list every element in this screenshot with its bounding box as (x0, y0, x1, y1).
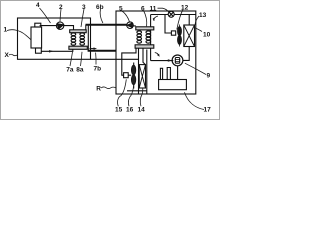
leader 17 (185, 92, 205, 109)
duct left side wall (87, 25, 89, 51)
leader X (9, 54, 18, 55)
leader 9 (185, 63, 206, 74)
leader 14 (140, 88, 143, 106)
arrow on compressor wire (168, 59, 172, 61)
channel to HX14 right (143, 48, 145, 64)
wire tank bottom (41, 49, 73, 51)
duct arrow (90, 48, 95, 50)
coil 7a (71, 33, 76, 36)
svg-text:5: 5 (119, 6, 123, 13)
svg-text:11: 11 (150, 6, 157, 13)
box X outline (18, 18, 91, 59)
coil6 return wire (122, 48, 136, 75)
fan motor 15 (124, 73, 129, 78)
HX 14 (139, 65, 145, 88)
duct 6b top wall (86, 24, 127, 26)
leader 6b (100, 9, 103, 23)
svg-text:6: 6 (141, 6, 145, 13)
indoor duct bottom (127, 90, 147, 92)
coil 6 left (137, 31, 142, 34)
leader 7a (70, 52, 73, 66)
HX 7b bottom plate (69, 46, 87, 49)
leader 11 (158, 8, 169, 12)
svg-text:7a: 7a (66, 67, 74, 74)
duct 6b bottom wall (88, 50, 117, 52)
box R outline (116, 11, 196, 94)
flow arrow top (154, 16, 159, 21)
leader 4 (40, 8, 51, 23)
outdoor fan blades (178, 27, 182, 36)
coil 6 right (146, 31, 151, 34)
vessel on box 17 (160, 68, 162, 79)
inner partition top (151, 14, 196, 16)
svg-text:1: 1 (4, 27, 8, 34)
pump 5 (127, 22, 134, 29)
leader R (101, 87, 116, 89)
svg-text:4: 4 (36, 2, 40, 9)
svg-text:15: 15 (115, 107, 123, 114)
border frame (1, 1, 220, 120)
leader 16 (128, 86, 133, 107)
svg-text:12: 12 (181, 5, 189, 12)
inner partition left (151, 15, 174, 61)
leader 1 (7, 30, 31, 40)
leader 10 (194, 28, 202, 32)
box 17 (159, 80, 187, 90)
indoor duct right wall (146, 50, 148, 95)
leader 8a (81, 52, 83, 66)
wire tank to pump (40, 25, 57, 27)
wire bottom extension (91, 58, 140, 60)
arrow on tank wire (49, 50, 54, 52)
svg-text:16: 16 (126, 107, 134, 114)
wire to outdoor fan (165, 15, 171, 34)
duct end wall nub (85, 25, 87, 30)
compressor 9 (172, 55, 183, 66)
flow arrow middle (155, 53, 159, 56)
wire HX13 down to compressor (183, 47, 189, 61)
svg-text:13: 13 (199, 12, 207, 19)
leader 7b (95, 53, 97, 65)
fan 16 axis (133, 63, 135, 89)
coil 8a (80, 33, 85, 36)
outdoor fan axis (179, 25, 181, 47)
leader 5 (121, 11, 129, 22)
svg-text:14: 14 (138, 107, 146, 114)
tank 1 (31, 27, 42, 48)
channel to HX14 left (138, 48, 140, 94)
leader 6 (144, 11, 147, 27)
svg-text:7b: 7b (94, 66, 102, 73)
wire pump to HX7b (63, 26, 73, 30)
HX 6 bottom plate (135, 45, 154, 48)
svg-text:8a: 8a (76, 67, 84, 74)
HX 13 (184, 25, 195, 47)
svg-text:6b: 6b (96, 4, 104, 11)
svg-text:2: 2 (59, 4, 63, 11)
fan 16 blades (131, 65, 135, 75)
leader 13 (195, 16, 199, 25)
leader 12 (177, 10, 183, 30)
leader 3 (81, 9, 84, 27)
svg-text:R: R (96, 85, 101, 92)
svg-text:X: X (5, 52, 10, 59)
svg-text:9: 9 (207, 73, 211, 80)
leader 15 (118, 79, 127, 106)
wire HX13 up (188, 15, 190, 26)
HX 6 top plate (136, 27, 154, 30)
leader 2 (60, 9, 61, 22)
damper 11 (168, 11, 174, 17)
HX 7b top plate (70, 30, 87, 33)
svg-text:10: 10 (203, 32, 211, 39)
svg-text:3: 3 (82, 4, 86, 11)
svg-text:17: 17 (204, 107, 212, 114)
outdoor fan motor (171, 31, 175, 35)
pump 2 (56, 22, 63, 29)
labels and leaders (7, 8, 206, 110)
wire pump5 to HX6 (133, 25, 136, 27)
wire compressor to box17 (177, 66, 179, 80)
